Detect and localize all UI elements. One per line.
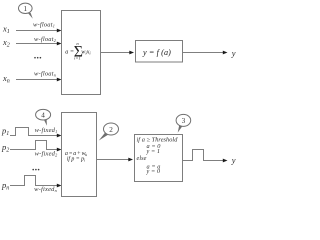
output wire with pulse: [183, 150, 224, 161]
wire p2 with pulse: [10, 141, 58, 150]
threshold box: [135, 135, 183, 182]
arrowhead x2: [57, 42, 62, 46]
svg-text:wixi: wixi: [81, 48, 91, 55]
dots top: [34, 57, 36, 59]
svg-text:x1: x1: [2, 23, 10, 35]
arrowhead x1: [57, 29, 62, 33]
threshold pseudocode: [137, 136, 179, 175]
svg-text:else: else: [137, 155, 147, 162]
arrowhead pn: [57, 184, 62, 188]
svg-text:2: 2: [109, 126, 113, 134]
callout 4: [36, 109, 51, 125]
svg-text:i=1: i=1: [74, 56, 81, 61]
svg-text:p1: p1: [1, 126, 9, 138]
arrowhead p1: [57, 134, 62, 138]
activation box f(a): [136, 41, 183, 63]
svg-text:w-floatn: w-floatn: [34, 71, 56, 78]
svg-text:if p = pi: if p = pi: [67, 155, 86, 162]
arrowhead y bottom: [223, 159, 228, 163]
svg-text:y: y: [231, 155, 236, 165]
svg-text:xn: xn: [2, 73, 10, 85]
callout 1: [19, 3, 33, 19]
arrowhead into f box: [129, 51, 134, 55]
svg-text:1: 1: [24, 5, 28, 13]
svg-text:w-fixedn: w-fixedn: [34, 186, 57, 193]
svg-text:y = f (a): y = f (a): [142, 48, 171, 57]
svg-text:y = 1: y = 1: [146, 148, 161, 155]
wire sum to f: [100, 52, 130, 54]
svg-text:y = 0: y = 0: [146, 168, 161, 175]
summation box U1: [62, 11, 101, 95]
wire p1 with pulse: [10, 128, 58, 136]
callout 2: [99, 123, 119, 141]
svg-text:w-fixed1: w-fixed1: [35, 127, 58, 134]
accumulator box: [62, 113, 97, 197]
arrowhead y top: [223, 51, 228, 55]
dots bottom: [32, 169, 34, 171]
wire x1: [16, 30, 58, 32]
svg-text:p2: p2: [1, 142, 9, 154]
svg-text:w-fixed2: w-fixed2: [35, 150, 58, 157]
equation a = sum wi xi: [65, 41, 91, 61]
svg-text:pn: pn: [1, 180, 9, 192]
arrowhead xn: [57, 78, 62, 82]
arrowhead p2: [57, 148, 62, 152]
wire acc to threshold: [97, 159, 130, 161]
svg-text:w-float2: w-float2: [34, 36, 56, 43]
wire x2: [16, 43, 58, 45]
accumulator equation: [65, 151, 88, 162]
svg-text:w-float1: w-float1: [33, 22, 55, 29]
svg-text:x2: x2: [2, 37, 10, 49]
svg-text:4: 4: [41, 111, 45, 119]
callout 3: [176, 114, 191, 132]
arrowhead into threshold box: [128, 158, 133, 162]
svg-text:3: 3: [182, 117, 186, 125]
svg-text:y: y: [231, 48, 236, 58]
wire xn: [16, 79, 58, 81]
wire pn with pulse: [10, 176, 58, 186]
wire f to y: [183, 52, 224, 54]
